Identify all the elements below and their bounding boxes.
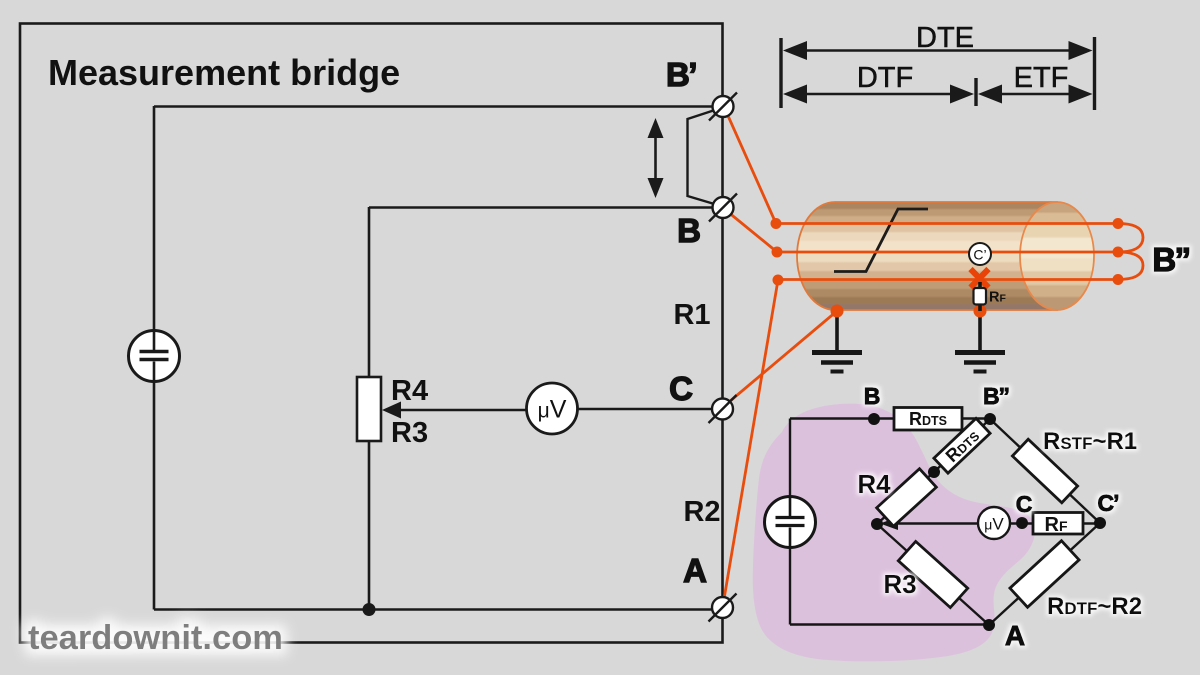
svg-text:μV: μV xyxy=(984,515,1004,534)
svg-text:R3: R3 xyxy=(883,569,916,599)
svg-text:μV: μV xyxy=(538,396,567,424)
svg-text:B’: B’ xyxy=(666,56,696,93)
svg-text:R1: R1 xyxy=(673,299,710,331)
svg-text:ETF: ETF xyxy=(1014,62,1069,94)
svg-text:R3: R3 xyxy=(391,417,428,449)
svg-text:A: A xyxy=(683,552,707,589)
svg-text:Measurement bridge: Measurement bridge xyxy=(48,52,400,93)
svg-text:RF: RF xyxy=(1044,514,1067,536)
svg-text:DTF: DTF xyxy=(857,62,913,94)
svg-text:R4: R4 xyxy=(857,469,891,499)
svg-text:B”: B” xyxy=(1152,241,1189,278)
svg-text:C: C xyxy=(1016,491,1033,517)
svg-text:teardownit.com: teardownit.com xyxy=(28,619,283,657)
svg-text:C’: C’ xyxy=(1098,490,1119,516)
svg-text:B: B xyxy=(864,383,881,409)
svg-text:R4: R4 xyxy=(391,375,428,407)
svg-text:B”: B” xyxy=(983,383,1009,409)
svg-text:C: C xyxy=(669,370,693,407)
svg-text:B: B xyxy=(677,212,701,249)
svg-text:C’: C’ xyxy=(973,247,986,263)
svg-text:RF: RF xyxy=(989,290,1006,306)
svg-text:R2: R2 xyxy=(683,496,720,528)
svg-text:A: A xyxy=(1005,620,1025,651)
svg-text:DTE: DTE xyxy=(916,22,974,54)
